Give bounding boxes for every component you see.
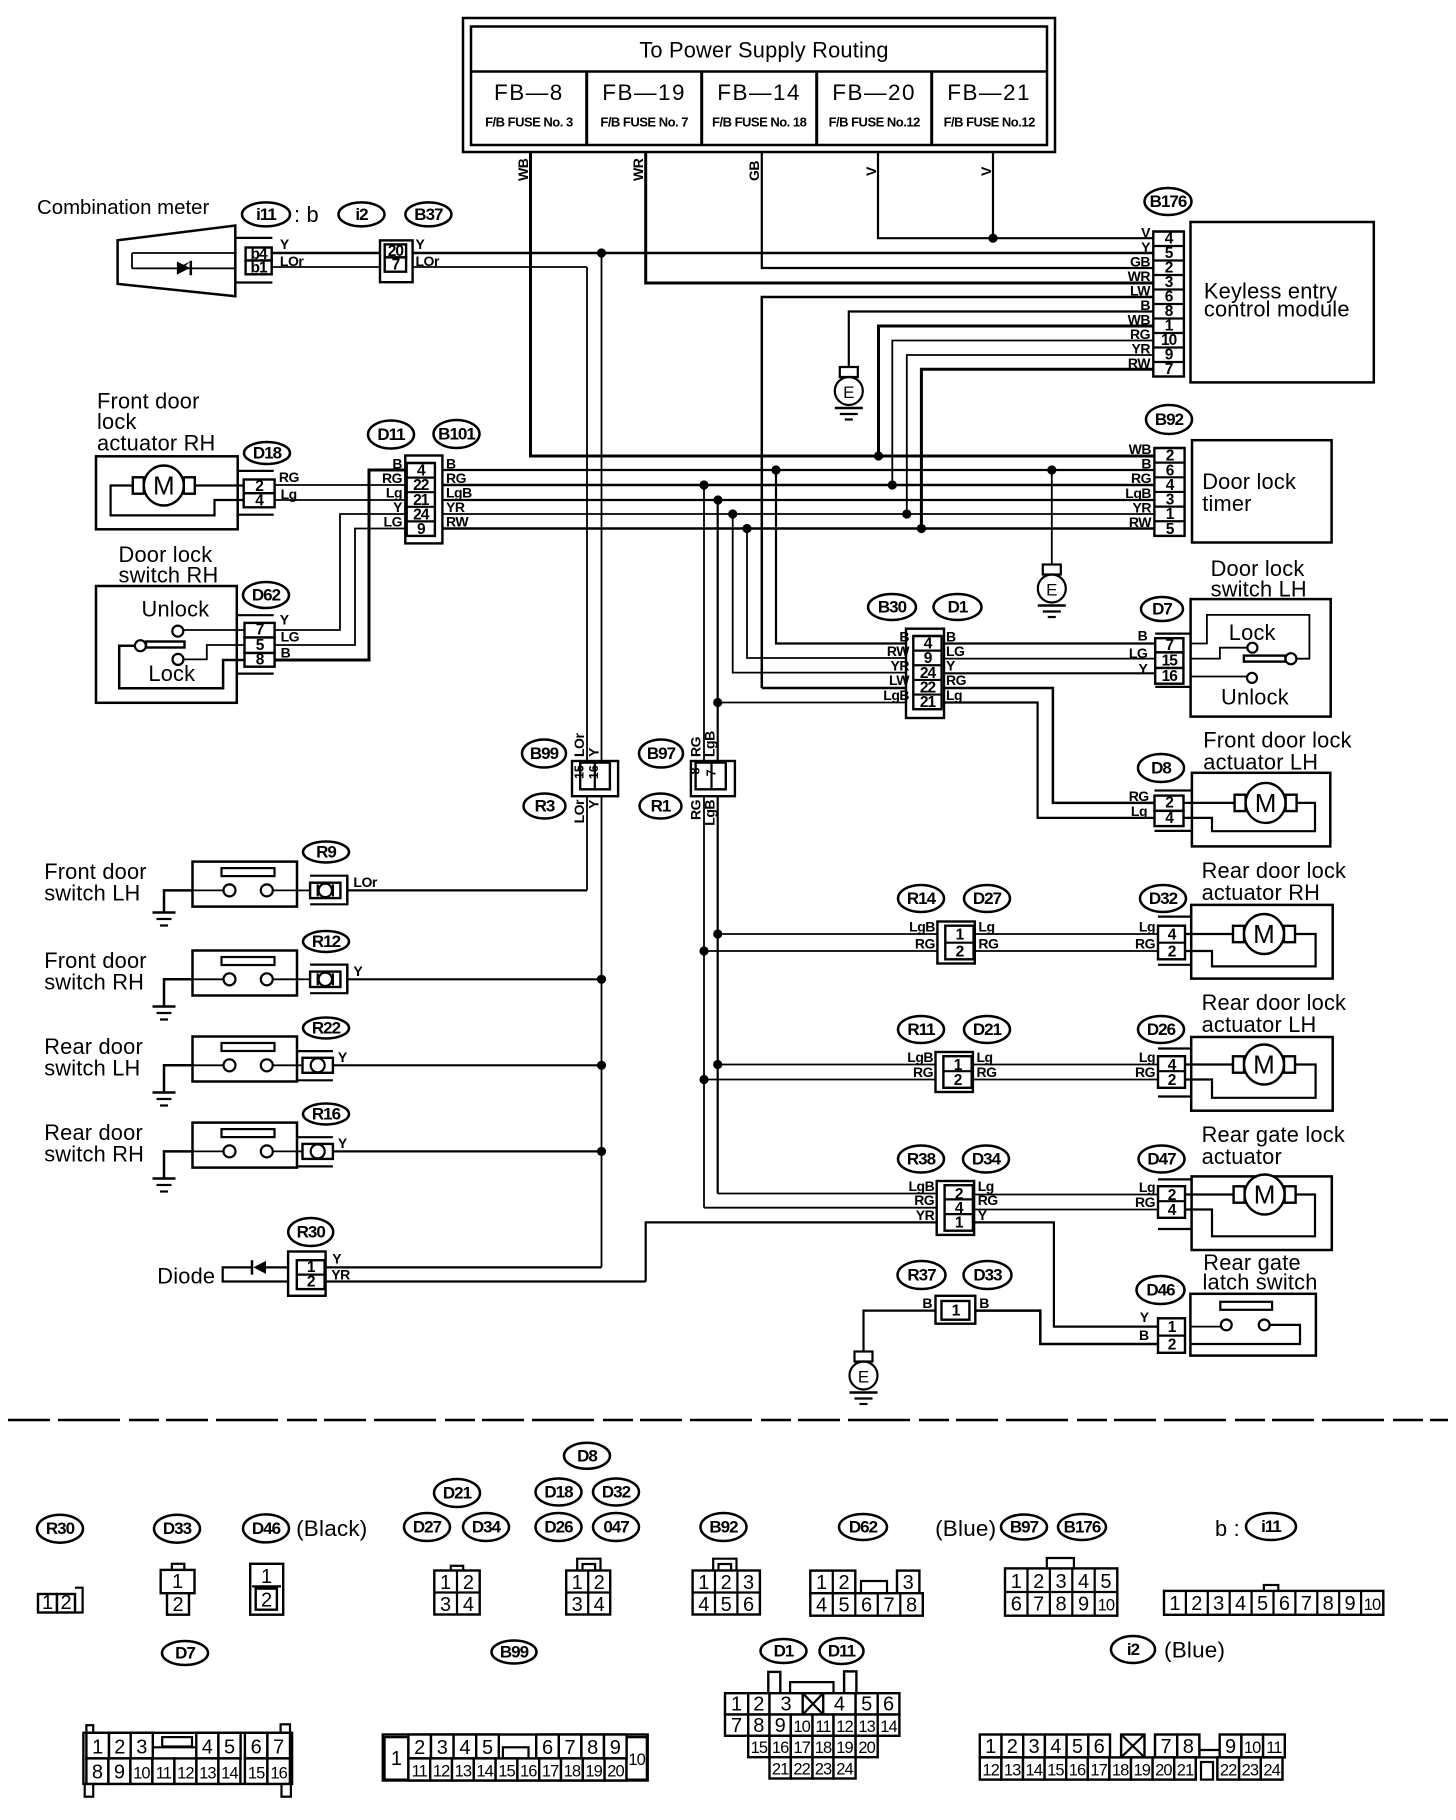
svg-text:(Blue): (Blue) (1164, 1638, 1225, 1663)
svg-text:12: 12 (177, 1765, 194, 1783)
svg-text:control module: control module (1204, 297, 1350, 322)
bottom pinout: B92 connector (701, 1513, 747, 1541)
svg-text:2: 2 (954, 1072, 962, 1089)
svg-text:1: 1 (985, 1736, 996, 1758)
svg-text:WB: WB (1129, 441, 1152, 457)
svg-text:D1: D1 (774, 1642, 794, 1661)
svg-text:3: 3 (572, 1594, 583, 1616)
wire RG D27 to D32 (975, 950, 1158, 952)
svg-text:2: 2 (307, 1273, 315, 1290)
wire RG to R38 (704, 1207, 937, 1209)
svg-text:FB—14: FB—14 (717, 80, 801, 105)
wire Y bus vertical (601, 253, 603, 1267)
svg-text:D34: D34 (472, 1518, 502, 1537)
svg-text:FB—21: FB—21 (947, 80, 1031, 105)
wire Y diode to Y bus (326, 1266, 602, 1268)
wire motor to D18 pin2 (194, 484, 244, 486)
svg-text:Lg: Lg (978, 919, 994, 935)
svg-text:LOr: LOr (353, 874, 377, 890)
connector B97 (pins 8/7) (639, 740, 683, 768)
svg-text:4: 4 (1078, 1571, 1089, 1593)
wire D47 pin4 loop (1185, 1195, 1315, 1237)
switch contacts RH (183, 629, 244, 631)
svg-text:YR: YR (446, 499, 465, 515)
svg-text:10: 10 (793, 1718, 810, 1736)
diode inside combination meter (265, 1260, 267, 1262)
svg-text:16: 16 (520, 1763, 537, 1781)
svg-text:11: 11 (1266, 1739, 1282, 1757)
svg-text:8: 8 (1056, 1594, 1067, 1616)
bottom pinout: D7 ellipse (162, 1641, 208, 1665)
svg-text:5: 5 (1100, 1571, 1111, 1593)
svg-text:6: 6 (251, 1737, 262, 1759)
keyless entry control module B176 (1145, 188, 1192, 215)
svg-text:Y: Y (280, 612, 290, 628)
svg-text:LgB: LgB (702, 800, 718, 826)
svg-text:F/B FUSE No. 3: F/B FUSE No. 3 (485, 115, 573, 130)
bottom pinout: R30 (37, 1515, 83, 1543)
svg-text:17: 17 (542, 1763, 559, 1781)
node V junction (988, 234, 997, 243)
wire LgB row (442, 499, 1154, 501)
svg-text:1: 1 (391, 1748, 402, 1770)
svg-text:Y: Y (338, 1135, 348, 1151)
svg-text:4: 4 (1235, 1593, 1246, 1615)
connector R12 (303, 931, 349, 952)
svg-text:R16: R16 (312, 1105, 341, 1124)
connector i11:b pins b4/b1 (235, 237, 272, 239)
svg-text:24: 24 (836, 1761, 853, 1779)
svg-text:actuator RH: actuator RH (97, 431, 216, 456)
svg-text:15: 15 (248, 1765, 265, 1783)
svg-text:RG: RG (946, 672, 967, 688)
svg-text:7: 7 (1161, 1736, 1172, 1758)
svg-text:FB—19: FB—19 (602, 80, 686, 105)
wire D47 to motor (1185, 1193, 1234, 1195)
svg-text:12: 12 (433, 1763, 450, 1781)
svg-text:LG: LG (281, 629, 300, 645)
connector D62 (243, 582, 289, 608)
wire V drop from FB-20 (878, 152, 1153, 238)
svg-text:5: 5 (482, 1737, 493, 1759)
wire B keyless pin8 to ground (849, 312, 1154, 368)
svg-text:18: 18 (815, 1739, 832, 1757)
svg-text:RG: RG (279, 469, 300, 485)
connector D46 (1137, 1276, 1185, 1304)
wire RG riser through B97 (703, 485, 705, 1208)
wire Y D34 to rear gate latch switch (974, 1222, 1158, 1326)
bottom pinout: i2 connector (1111, 1636, 1155, 1663)
svg-text:RG: RG (1131, 470, 1152, 486)
svg-text:LgB: LgB (909, 919, 935, 935)
svg-text:10: 10 (628, 1751, 645, 1769)
wire RW keyless pin7 riser (921, 369, 1153, 528)
svg-text:D47: D47 (1147, 1150, 1176, 1169)
svg-text:10: 10 (1244, 1739, 1261, 1757)
wire Lg D34 to D47 (974, 1194, 1158, 1196)
wire RG R14 row (704, 950, 937, 952)
svg-text:10: 10 (133, 1765, 150, 1783)
svg-text:B: B (979, 1295, 989, 1311)
svg-text:B99: B99 (500, 1643, 529, 1662)
svg-text:B: B (1138, 628, 1148, 644)
wire Y (333, 1064, 602, 1066)
wire Lg D18 to D11 (275, 499, 406, 501)
svg-text:2: 2 (1033, 1571, 1044, 1593)
wire RG keyless pin10 riser (892, 341, 1153, 486)
wire RG B30 to D8 (944, 688, 1155, 803)
wire LgB to B30 pin21 (718, 702, 906, 704)
svg-text:R9: R9 (316, 843, 336, 862)
wire RG D21 to D26 (973, 1079, 1158, 1081)
wire D32 pin2 loop (1185, 934, 1316, 966)
wire Lg D21 to D26 (973, 1064, 1158, 1066)
svg-text:4: 4 (202, 1737, 213, 1759)
svg-text:7: 7 (392, 257, 400, 274)
svg-text:9: 9 (610, 1737, 621, 1759)
svg-text:D33: D33 (973, 1266, 1002, 1285)
ground wire (164, 890, 193, 912)
svg-text:5: 5 (838, 1595, 849, 1617)
connector R37/D33 (898, 1261, 946, 1289)
svg-text:7: 7 (1301, 1593, 1312, 1615)
connector D47 (1139, 1146, 1185, 1173)
svg-text:b1: b1 (251, 260, 268, 277)
ground wire (164, 979, 193, 1006)
svg-text:RG: RG (978, 936, 999, 952)
svg-text:11: 11 (815, 1718, 831, 1736)
svg-text:V: V (863, 166, 879, 176)
svg-text:Y: Y (1138, 661, 1148, 677)
svg-text:Lock: Lock (1229, 620, 1276, 645)
wire Lg B30 to D8 (944, 703, 1155, 818)
svg-text:13: 13 (858, 1718, 875, 1736)
svg-text:D7: D7 (175, 1644, 195, 1663)
wire Y B30 to D7 (944, 672, 1155, 674)
svg-text:2: 2 (463, 1572, 474, 1594)
svg-text:9: 9 (1078, 1594, 1089, 1616)
wire LW riser turn to B30 (762, 687, 906, 690)
wire Lg D27 to D32 (975, 933, 1158, 935)
connector R38/D34 (937, 1181, 974, 1235)
svg-text:YR: YR (1133, 499, 1152, 515)
svg-text:D8: D8 (1151, 759, 1171, 778)
svg-text:i11: i11 (256, 205, 276, 224)
connector D7 (1141, 597, 1183, 621)
wire D8 pin4 loop (1184, 803, 1316, 831)
svg-text:17: 17 (1090, 1762, 1107, 1780)
svg-text:Lg: Lg (1139, 919, 1155, 935)
svg-text:FB—20: FB—20 (832, 80, 916, 105)
svg-text:switch RH: switch RH (44, 970, 144, 995)
svg-text:1: 1 (1169, 1593, 1180, 1615)
wire D26 to motor (1185, 1063, 1233, 1065)
svg-text:(Blue): (Blue) (935, 1516, 996, 1541)
motor M rear LH (1233, 1045, 1295, 1085)
svg-text:D7: D7 (1152, 600, 1172, 619)
svg-text:3: 3 (437, 1737, 448, 1759)
svg-text:6: 6 (1094, 1736, 1105, 1758)
svg-text:2: 2 (838, 1572, 849, 1594)
svg-text:21: 21 (1177, 1762, 1194, 1780)
svg-text:LG: LG (384, 514, 403, 530)
svg-text:B: B (281, 645, 291, 661)
svg-text:1: 1 (172, 1571, 183, 1593)
wire Y row to keyless pin 5 (413, 252, 1154, 255)
svg-text:(Black): (Black) (296, 1516, 367, 1541)
svg-text:15: 15 (1162, 653, 1179, 670)
svg-text:D26: D26 (544, 1518, 573, 1537)
wire motor loop to D18 pin4 (111, 486, 244, 516)
connector R16 (303, 1104, 349, 1125)
wire RG R11 row (704, 1079, 936, 1081)
svg-text:Y: Y (338, 1049, 348, 1065)
svg-text:i11: i11 (1261, 1517, 1281, 1536)
svg-text:LgB: LgB (446, 485, 472, 501)
svg-text:1: 1 (440, 1572, 451, 1594)
wire LOr riser down to front door switch LH (586, 267, 588, 890)
svg-text:LgB: LgB (883, 687, 909, 703)
svg-text:Y: Y (332, 1251, 342, 1267)
svg-text:Y: Y (393, 499, 403, 515)
wire YR keyless pin9 riser (907, 355, 1154, 514)
wire B R37 to D46 (975, 1311, 1158, 1344)
svg-text:3: 3 (781, 1694, 792, 1716)
svg-text:6: 6 (1279, 1593, 1290, 1615)
connector D11/B101 (368, 421, 414, 449)
svg-text:D11: D11 (828, 1642, 856, 1661)
svg-text:D46: D46 (1146, 1281, 1175, 1300)
svg-text:RG: RG (446, 470, 467, 486)
wire B riser to B30 (776, 470, 906, 644)
svg-text:8: 8 (92, 1762, 103, 1784)
svg-text:B: B (922, 1295, 932, 1311)
svg-text:16: 16 (1069, 1762, 1086, 1780)
svg-text:23: 23 (815, 1761, 832, 1779)
svg-text:B101: B101 (438, 425, 475, 444)
svg-text:2: 2 (594, 1572, 605, 1594)
svg-text:D62: D62 (252, 586, 281, 605)
ground E R37 (850, 1352, 878, 1405)
svg-text:8: 8 (753, 1715, 764, 1737)
svg-text:22: 22 (1220, 1762, 1237, 1780)
svg-text:5: 5 (1072, 1736, 1083, 1758)
svg-text:14: 14 (1026, 1762, 1043, 1780)
svg-text:2: 2 (753, 1694, 764, 1716)
svg-text:3: 3 (1213, 1593, 1224, 1615)
svg-text:D26: D26 (1147, 1020, 1176, 1039)
svg-text:R38: R38 (907, 1150, 936, 1169)
svg-text:RG: RG (977, 1064, 998, 1080)
wire LgB R11 row (718, 1064, 936, 1066)
svg-text:D32: D32 (602, 1483, 631, 1502)
svg-text:RW: RW (446, 514, 469, 530)
svg-text:i2: i2 (1127, 1640, 1140, 1659)
svg-text:16: 16 (587, 765, 601, 779)
svg-text:D8: D8 (577, 1446, 597, 1465)
wire V drop from FB-21 (992, 152, 994, 238)
svg-text:15: 15 (498, 1763, 515, 1781)
svg-text:: b: : b (294, 202, 319, 227)
wire B row to E ground (1051, 470, 1053, 565)
svg-text:047: 047 (603, 1518, 629, 1537)
svg-text:2: 2 (721, 1572, 732, 1594)
svg-text:4: 4 (816, 1595, 827, 1617)
svg-text:LgB: LgB (907, 1049, 933, 1065)
svg-text:actuator LH: actuator LH (1203, 750, 1318, 775)
svg-text:Lg: Lg (946, 687, 962, 703)
wire LgB R14 row (718, 933, 938, 935)
svg-text:B97: B97 (647, 744, 676, 763)
svg-text:3: 3 (136, 1737, 147, 1759)
svg-text:7: 7 (565, 1737, 576, 1759)
svg-text:15: 15 (1047, 1762, 1064, 1780)
svg-text:5: 5 (721, 1594, 732, 1616)
svg-text:F/B FUSE No. 7: F/B FUSE No. 7 (600, 115, 688, 130)
svg-text:1: 1 (261, 1566, 272, 1588)
svg-text:13: 13 (1004, 1762, 1021, 1780)
wire RG D18 to D11 (275, 484, 406, 486)
svg-text:8: 8 (906, 1595, 917, 1617)
svg-text:18: 18 (564, 1763, 581, 1781)
ellipse B37 (405, 202, 451, 226)
svg-text:7: 7 (883, 1595, 894, 1617)
separator dashed line (8, 1419, 1448, 1422)
svg-text:21: 21 (772, 1761, 789, 1779)
svg-text:2: 2 (172, 1594, 183, 1616)
svg-text:B92: B92 (709, 1518, 738, 1537)
door lock timer B92 (1146, 405, 1192, 434)
svg-text:8: 8 (1323, 1593, 1334, 1615)
svg-text:23: 23 (1242, 1762, 1259, 1780)
connector D18 (244, 442, 290, 464)
wire WR drop from FB-19 (646, 152, 1154, 283)
svg-text:20: 20 (858, 1739, 875, 1757)
wire GB drop from FB-14 (762, 152, 1154, 268)
svg-text:7: 7 (705, 769, 719, 776)
svg-text:Y: Y (946, 658, 956, 674)
svg-text:B: B (1141, 455, 1151, 471)
svg-text:F/B FUSE No. 18: F/B FUSE No. 18 (712, 115, 807, 130)
svg-text:Y: Y (1140, 1309, 1150, 1325)
svg-text:RG: RG (914, 1192, 935, 1208)
svg-text:D18: D18 (253, 444, 282, 463)
svg-text:To Power Supply Routing: To Power Supply Routing (639, 38, 888, 63)
wire B row B101-timer (442, 469, 1154, 471)
svg-text:19: 19 (836, 1739, 853, 1757)
svg-text:14: 14 (476, 1763, 493, 1781)
svg-text:Lg: Lg (1139, 1179, 1155, 1195)
connector R9 (303, 842, 349, 863)
svg-text:1: 1 (698, 1572, 709, 1594)
svg-text:1: 1 (816, 1572, 827, 1594)
svg-text:3: 3 (1056, 1571, 1067, 1593)
svg-text:B97: B97 (1010, 1518, 1039, 1537)
connector D8 (1138, 754, 1184, 782)
svg-text:12: 12 (982, 1762, 999, 1780)
svg-text:YR: YR (916, 1207, 935, 1223)
svg-text:R22: R22 (312, 1019, 341, 1038)
wire D32 to motor (1185, 933, 1233, 935)
wire LgB to R38 (718, 1193, 937, 1195)
wire LG D62 to D11 (275, 529, 406, 646)
svg-text:4: 4 (594, 1594, 605, 1616)
svg-text:12: 12 (836, 1718, 853, 1736)
connector R30 (288, 1218, 333, 1246)
ground wire (164, 1151, 193, 1178)
motor M actuator RH (133, 466, 195, 506)
svg-text:WB: WB (515, 158, 531, 181)
bottom pinout: D1/D11 connector (761, 1639, 807, 1663)
wire B R37 to ground (864, 1311, 936, 1352)
connector B176 pin block (1153, 232, 1184, 377)
wire D8 pin2 to motor (1184, 802, 1235, 804)
svg-text:LW: LW (889, 672, 910, 688)
wire B B30 to D7 (944, 642, 1155, 644)
power supply routing block (463, 18, 1055, 152)
wire WB drop from FB-8 (531, 152, 1155, 456)
svg-text:2: 2 (414, 1737, 425, 1759)
svg-text:15: 15 (751, 1739, 768, 1757)
svg-text:RG: RG (382, 470, 403, 486)
svg-text:actuator: actuator (1202, 1144, 1282, 1169)
wire LOr combination meter to B37 (272, 266, 380, 268)
connector R11/D21 (936, 1052, 973, 1092)
svg-text:7: 7 (256, 622, 264, 639)
svg-text:8: 8 (1183, 1736, 1194, 1758)
svg-text:16: 16 (772, 1739, 789, 1757)
svg-text:B99: B99 (530, 744, 559, 763)
wire LgB riser through B97 (717, 500, 719, 1194)
connector B30/D1 (868, 594, 916, 620)
svg-text:R11: R11 (907, 1020, 935, 1039)
svg-text:RG: RG (1129, 788, 1150, 804)
svg-text:D11: D11 (377, 425, 405, 444)
connector B92 pin block (1154, 448, 1184, 536)
svg-text:D18: D18 (544, 1483, 573, 1502)
svg-text:1: 1 (92, 1737, 103, 1759)
svg-text:24: 24 (1263, 1762, 1280, 1780)
svg-text:5: 5 (861, 1694, 872, 1716)
node Y junction (597, 248, 606, 257)
svg-text:F/B FUSE No.12: F/B FUSE No.12 (944, 115, 1036, 130)
svg-text:15: 15 (573, 765, 587, 779)
svg-text:LG: LG (946, 643, 965, 659)
svg-text:RG: RG (913, 1064, 934, 1080)
svg-text:D1: D1 (948, 598, 968, 617)
svg-text:2: 2 (1168, 943, 1176, 960)
svg-text:LgB: LgB (702, 731, 718, 757)
svg-text:13: 13 (455, 1763, 472, 1781)
wire RW riser to B30 (747, 529, 906, 659)
wire Y combination meter to B37 (272, 252, 380, 255)
motor M rear gate (1234, 1175, 1296, 1215)
junction dots on rows (874, 451, 883, 460)
svg-text:10: 10 (1098, 1597, 1115, 1615)
svg-text:Lg: Lg (1131, 803, 1147, 819)
ellipse i2 (339, 202, 385, 226)
wire WB keyless pin1 riser (879, 326, 1154, 456)
svg-text:2: 2 (956, 943, 964, 960)
svg-text:6: 6 (743, 1594, 754, 1616)
svg-text:9: 9 (775, 1715, 786, 1737)
svg-text:2: 2 (261, 1590, 272, 1612)
svg-text:6: 6 (861, 1595, 872, 1617)
svg-text:D62: D62 (849, 1518, 878, 1537)
svg-text:13: 13 (199, 1765, 216, 1783)
bottom pinout: 2x2 connector D8/D18/D32/D26/D47 (564, 1443, 610, 1469)
svg-text:switch LH: switch LH (44, 1056, 140, 1081)
